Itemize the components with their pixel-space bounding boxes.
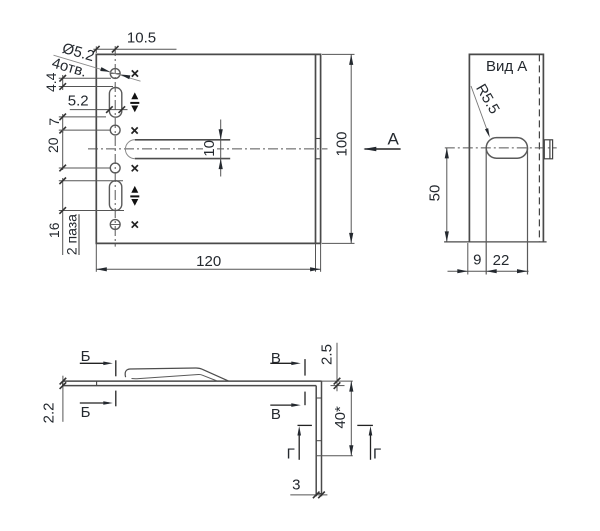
label 16 (46, 222, 62, 238)
x mark hole 4 (132, 222, 138, 228)
flange bottom (316, 493, 321, 495)
svg-text:5.2: 5.2 (68, 92, 89, 109)
hole 1 center dash (111, 73, 120, 75)
tick 7 bottom (59, 127, 66, 134)
tick 5.2 left (106, 106, 113, 113)
dimension line 50 (446, 148, 448, 242)
underline 2 paza (78, 214, 80, 255)
label V upper (271, 350, 281, 367)
ext line 120 right outer (320, 243, 322, 271)
label 10 (201, 140, 218, 157)
section trace V lower (304, 392, 306, 406)
svg-text:7: 7 (46, 118, 62, 126)
svg-text:А: А (388, 130, 400, 149)
svg-text:2.2: 2.2 (41, 402, 58, 423)
arrow 50 top (445, 148, 449, 159)
view A center line (445, 147, 557, 149)
dimension line 100 (350, 54, 352, 243)
svg-text:9: 9 (473, 252, 481, 269)
dimension line 120 (96, 268, 320, 270)
label V lower (271, 406, 281, 423)
label 7 (46, 118, 62, 126)
lanced tongue outer profile (125, 368, 228, 381)
channel line left (485, 148, 487, 275)
hole 2 (d5.2) (110, 125, 120, 135)
ext line 100 bottom (322, 242, 355, 244)
section arrow G right (369, 426, 373, 460)
dimension line 2.2 (62, 376, 64, 422)
flange tick 2 (316, 440, 321, 442)
dimension line 16 (62, 178, 64, 255)
label G right (373, 445, 381, 462)
section arrow V lower (270, 403, 301, 407)
view A dashed bend line (538, 54, 540, 242)
ext line 4.4 bottom (59, 86, 113, 88)
flange tick 1 (316, 397, 321, 399)
slot 1 (5.2x16 obround) (109, 88, 121, 118)
svg-text:4.4: 4.4 (43, 72, 59, 92)
dimension line 4.4 (62, 75, 64, 90)
strip bottom edge (63, 385, 317, 387)
dimension line 5.2 (70, 109, 128, 111)
tick 3 left (313, 492, 320, 499)
arrow 120 right (310, 267, 321, 271)
arrow 40 bottom (349, 445, 353, 456)
dimension line 40 (350, 381, 352, 456)
ext line 120 right inner (315, 243, 317, 271)
label R5.5 (472, 81, 503, 117)
hole 3 (d5.2) (110, 163, 120, 173)
label 50 (427, 185, 444, 202)
label 9 (473, 252, 481, 269)
tab notch tick lower (right edge) (316, 158, 321, 160)
section arrow V upper (270, 362, 301, 366)
svg-text:Г: Г (373, 445, 381, 462)
tick 10.5 left (93, 46, 100, 53)
ext line 20 bottom (hole 3 axis) (59, 167, 111, 169)
tick 16 bottom (59, 207, 66, 214)
ext line 9 left (467, 243, 469, 275)
section trace G left (298, 424, 312, 426)
label 2 paza (64, 214, 80, 255)
view A outline (469, 54, 543, 242)
section trace B lower (115, 391, 117, 407)
bent tab side view (544, 140, 552, 159)
tick 16 top (59, 178, 66, 185)
label B upper (81, 348, 91, 365)
arrow 22 right (517, 269, 528, 273)
ext line 120 left (95, 243, 97, 271)
long slot bottom edge (135, 158, 230, 160)
ext line 40 bottom (316, 455, 353, 457)
channel line right (527, 148, 529, 275)
arrow 120 left (96, 267, 107, 271)
arrow 10 bottom (219, 159, 223, 170)
vertical hole axis line (114, 46, 116, 247)
strip left end (62, 381, 64, 386)
hole 4 (d5.2) (110, 220, 120, 230)
dimension line 20 (62, 130, 64, 170)
svg-text:3: 3 (292, 477, 300, 494)
label 20 (45, 137, 61, 153)
leader line d5.2 (54, 55, 141, 81)
label 2.2 (41, 402, 58, 423)
section trace B upper (115, 360, 117, 376)
tick 4.4 top (59, 75, 66, 82)
label 3 (292, 477, 300, 494)
ext line 100 top (322, 53, 355, 55)
label 4.4 (43, 72, 59, 92)
arrow 40 top (349, 381, 353, 392)
ext line 7 top (59, 116, 106, 118)
plate outline (front view 120x100) (96, 54, 320, 243)
tab notch tick upper (right edge) (316, 138, 321, 140)
leader line R5.5 (471, 86, 489, 134)
view A bottom edge with extensions (444, 241, 546, 243)
tick 2.5 top (334, 378, 341, 385)
svg-text:100: 100 (333, 131, 350, 156)
strip tick (plate edge projection) (96, 381, 98, 386)
leader arrow left (100, 67, 110, 72)
label B lower (81, 404, 91, 421)
svg-text:Г: Г (287, 445, 295, 462)
svg-text:10.5: 10.5 (127, 30, 156, 47)
tick 10.5 right (112, 46, 119, 53)
arrow 100 bottom (349, 233, 353, 244)
tick 20 bottom (59, 165, 66, 172)
label 10.5 (127, 30, 156, 47)
section arrow G left (297, 426, 301, 460)
view arrow A line (365, 148, 401, 150)
flange inner edge (315, 386, 317, 497)
svg-text:10: 10 (201, 140, 218, 157)
leader arrow right (120, 75, 130, 80)
x mark hole 2 (132, 127, 138, 133)
label 4otv (50, 55, 89, 81)
section trace V upper (304, 359, 306, 376)
lance direction symbol slot 2 (130, 186, 139, 206)
flange outer edge (321, 381, 323, 496)
tick 4.4 bottom (59, 83, 66, 90)
label 22 (493, 252, 510, 269)
label Vid A (486, 58, 527, 75)
dimension line 7 (62, 114, 64, 133)
hole 1 (d5.2) (110, 69, 120, 79)
label 2.5 (318, 344, 335, 365)
tick 2.2 top (60, 378, 67, 385)
view arrow A head (363, 147, 376, 152)
dimension line 3 (290, 494, 327, 496)
label 40* (332, 406, 349, 429)
tick 5.2 right (119, 106, 126, 113)
svg-text:40*: 40* (332, 406, 349, 429)
svg-text:20: 20 (45, 137, 61, 153)
label 5.2 (68, 92, 89, 109)
ext line 4.4 top (59, 77, 111, 79)
arrow 50 bottom (445, 231, 449, 242)
dimension line 2.5 (336, 343, 338, 391)
lance direction symbol slot 1 (130, 92, 139, 112)
x mark hole 1 (132, 70, 138, 76)
view A slot (R5.5 obround) (486, 138, 527, 159)
bend line (inner right edge) (315, 54, 317, 243)
dimension line 10.5 (93, 48, 176, 50)
section arrow B lower (80, 401, 113, 405)
svg-text:16: 16 (46, 222, 62, 238)
tick 2.2 bottom (60, 382, 67, 389)
svg-text:2 паза: 2 паза (64, 214, 80, 255)
svg-text:22: 22 (493, 252, 510, 269)
ext line plate left edge up (95, 46, 97, 53)
svg-text:2.5: 2.5 (318, 344, 335, 365)
label d5.2 (60, 40, 96, 65)
tick 3 right (318, 492, 325, 499)
svg-text:Б: Б (81, 348, 91, 365)
lanced tongue inner profile (132, 374, 217, 380)
arrow 100 top (349, 54, 353, 65)
ext line 2.5/40 top (322, 380, 353, 382)
label G left (287, 445, 295, 462)
tick 2.5 bottom (334, 382, 341, 389)
dimension line 10 (220, 120, 222, 177)
label A (388, 130, 400, 149)
label 100 (333, 131, 350, 156)
svg-text:Б: Б (81, 404, 91, 421)
ext line 20 top (hole 2 axis) (59, 129, 111, 131)
tick 7 top (59, 114, 66, 121)
leader arrow R5.5 (485, 128, 490, 138)
arrow 9 outside (457, 269, 468, 273)
label 120 (196, 253, 221, 270)
svg-text:120: 120 (196, 253, 221, 270)
dimension line 9 and 22 (448, 270, 529, 272)
long slot top edge (135, 139, 230, 141)
hole 4 center dash (111, 224, 120, 226)
svg-text:50: 50 (427, 185, 444, 202)
ext line 16 top (59, 180, 123, 182)
svg-text:Вид А: Вид А (486, 58, 527, 75)
arrow 22 left (486, 269, 497, 273)
long slot left arc (125, 140, 134, 159)
section arrow B upper (80, 362, 113, 366)
arrow 10 top (219, 129, 223, 140)
ext line 16 bottom (59, 210, 124, 212)
ext line 2.5 bottom (331, 385, 345, 387)
section trace G right (357, 424, 373, 426)
x mark hole 3 (132, 165, 138, 171)
svg-text:В: В (271, 406, 281, 423)
strip top edge (63, 380, 322, 382)
svg-text:В: В (271, 350, 281, 367)
slot 2 (5.2x16 obround) (109, 181, 121, 211)
horizontal center line (88, 148, 328, 150)
